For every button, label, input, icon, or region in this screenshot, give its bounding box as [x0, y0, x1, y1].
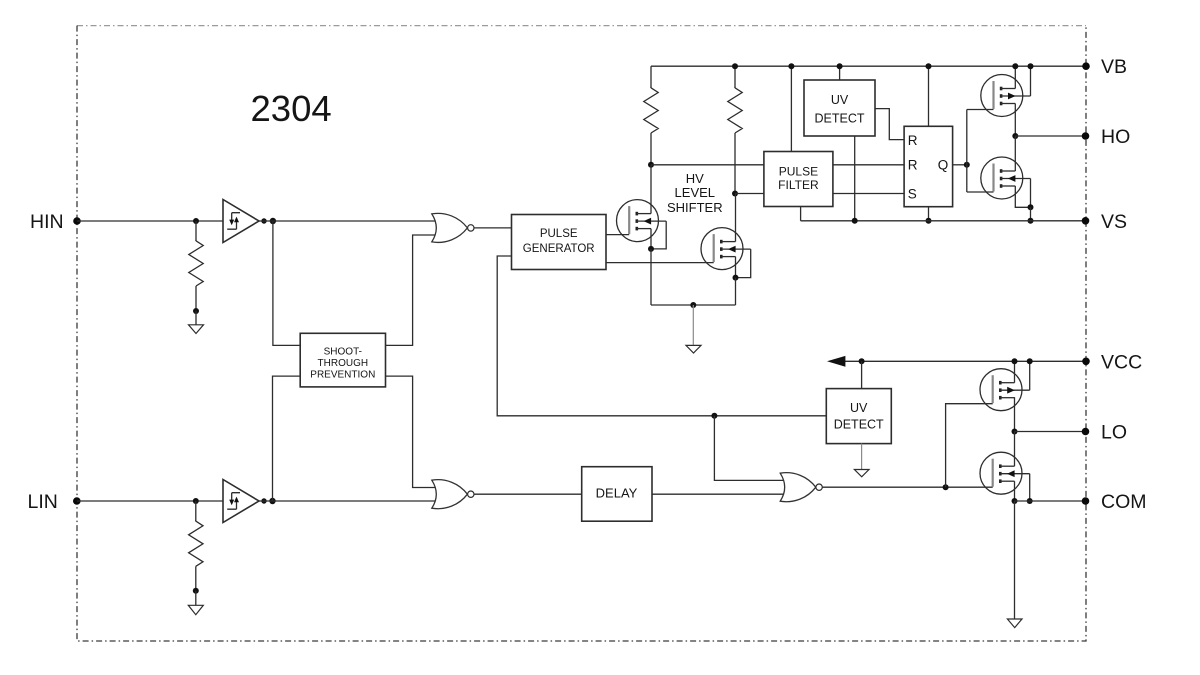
nor gate G1 (HIN)	[432, 213, 474, 242]
pin LO	[1082, 422, 1127, 444]
wire U1 output to gate G1	[259, 220, 438, 222]
label HV LEVEL SHIFTER	[667, 171, 723, 215]
wire R1 to ground	[195, 311, 197, 325]
wire Q1 drain up	[650, 165, 652, 214]
node VCC UV junction	[859, 358, 865, 364]
delay block	[582, 467, 652, 522]
resistor R3 (level shifter left)	[644, 66, 658, 165]
wire delay output to gate G3	[652, 493, 786, 495]
wire Q3 source to HO	[1014, 104, 1016, 137]
node output gate junction	[943, 484, 949, 490]
wire Q4 source loop	[1015, 186, 1030, 207]
wire Q2 source down	[735, 257, 737, 278]
arrow VCC feed	[827, 356, 845, 367]
wire G1 output to pulse generator	[474, 227, 512, 229]
svg-text:VCC: VCC	[1101, 351, 1142, 373]
node low-side route junction	[711, 413, 717, 419]
svg-text:PULSE: PULSE	[540, 228, 578, 240]
svg-text:HO: HO	[1101, 126, 1130, 148]
node LO junction	[1012, 429, 1018, 435]
wire Q node to Q3 gate	[967, 109, 994, 111]
wire HIN branch down to shoot-through	[273, 221, 300, 345]
ground level shifter	[686, 345, 701, 353]
node VB latch junction	[926, 63, 932, 69]
node R2 bottom	[193, 588, 199, 594]
node VB-R4 junction	[732, 63, 738, 69]
wire Q2 node to rail	[735, 278, 737, 305]
svg-text:SHOOT-: SHOOT-	[324, 346, 362, 357]
svg-text:Q: Q	[938, 158, 949, 173]
wire pulse filter S output to latch	[833, 193, 904, 195]
wire UV detect output to latch R1	[875, 109, 904, 140]
wire G3 output to output stage gates	[822, 486, 992, 488]
wire pulse filter bottom to VS rail	[800, 207, 802, 221]
shoot-through prevention block	[300, 333, 385, 387]
wire low route to gate G3 top input	[714, 416, 786, 481]
node VCC Q5 drain	[1012, 358, 1018, 364]
wire shoot-through top output to gate G1	[386, 235, 439, 345]
node COM Q6 source	[1012, 498, 1018, 504]
node VS Q4 junction	[1028, 218, 1034, 224]
wire G2 output to delay	[474, 493, 582, 495]
wire UV detect low to ground	[861, 444, 863, 470]
pin COM	[1082, 491, 1147, 513]
svg-text:COM: COM	[1101, 491, 1147, 513]
UV detect block (high side)	[804, 80, 875, 136]
VB rail	[651, 65, 1086, 67]
pin HO	[1082, 126, 1131, 148]
svg-text:SHIFTER: SHIFTER	[667, 200, 723, 215]
node COM Q6 body	[1027, 498, 1033, 504]
wire Q4 drain to HO	[1014, 136, 1016, 171]
transistor Q1 (level shifter left)	[617, 200, 667, 242]
svg-text:2304: 2304	[251, 88, 332, 129]
node R1 bottom	[193, 308, 199, 314]
node LIN junction	[193, 498, 199, 504]
node U1 output a	[261, 218, 266, 223]
wire VS rail	[801, 220, 1086, 222]
nor gate G2 (LIN)	[432, 480, 474, 509]
wire VB to pulse filter top	[790, 66, 792, 151]
svg-text:LO: LO	[1101, 422, 1127, 444]
wire level shifter common rail	[651, 304, 736, 306]
node Q2 source junction	[733, 275, 739, 281]
wire pulse generator to Q2 gate	[606, 262, 714, 264]
wire Q1 body loop	[651, 221, 666, 249]
wire pulse generator to Q1 gate	[606, 234, 629, 236]
wire VB to UV detect top	[839, 66, 841, 80]
resistor R1 HIN pulldown	[189, 221, 203, 311]
svg-text:LIN: LIN	[28, 491, 58, 513]
node R3 bottom	[648, 162, 654, 168]
node U1 output b	[270, 218, 276, 224]
wire Q4 body down	[1030, 179, 1032, 208]
pin VCC	[1082, 351, 1142, 373]
wire common rail to ground	[692, 305, 694, 345]
wire Q node to Q4 gate	[967, 191, 994, 193]
wire R2 to ground	[195, 591, 197, 606]
wire Q3 body to VB	[1030, 66, 1032, 96]
wire LIN input	[77, 500, 223, 502]
transistor Q4 (high side N)	[981, 157, 1031, 199]
node VB UV junction	[837, 63, 843, 69]
pulse generator block	[512, 215, 607, 270]
wire VB to latch top	[928, 66, 930, 126]
node common rail center	[690, 302, 696, 308]
svg-text:FILTER: FILTER	[778, 178, 819, 192]
ground LIN	[188, 605, 203, 614]
node VB Q3 drain	[1012, 63, 1018, 69]
transistor Q5 (low side P)	[980, 369, 1030, 411]
wire shoot-through bottom output to gate G2	[386, 376, 439, 487]
resistor R4 (level shifter right)	[728, 66, 742, 193]
svg-text:LEVEL: LEVEL	[675, 185, 715, 200]
schmitt buffer U1 HIN	[223, 200, 259, 243]
node HO junction	[1012, 133, 1018, 139]
pin VS	[1082, 211, 1127, 233]
svg-text:R: R	[908, 133, 918, 148]
nor gate G3 (low side)	[780, 473, 822, 502]
wire UV detect bottom to VS rail	[854, 136, 856, 221]
transistor Q3 (high side P)	[981, 75, 1031, 117]
IC boundary dashed border (left/bottom/right)	[77, 26, 1086, 641]
schmitt buffer U2 LIN	[223, 480, 259, 523]
node Q1 source junction	[648, 246, 654, 252]
ground COM	[1007, 619, 1022, 628]
wire HO line	[1015, 135, 1085, 137]
node U2 output b	[269, 498, 275, 504]
wire Q1 source down	[650, 229, 652, 249]
pin LIN	[28, 491, 81, 513]
resistor R2 LIN pulldown	[189, 501, 203, 591]
svg-text:THROUGH: THROUGH	[318, 358, 369, 369]
wire Q4 node to VS	[1030, 207, 1032, 221]
wire gate branch up to Q5	[946, 404, 993, 488]
node VCC Q5 body	[1027, 358, 1033, 364]
svg-text:DELAY: DELAY	[596, 486, 638, 501]
svg-text:HV: HV	[686, 171, 704, 186]
UV detect block (low side)	[826, 389, 891, 444]
ground HIN	[189, 325, 204, 334]
RS latch U3	[904, 126, 953, 206]
node Q4 source-body junction	[1028, 204, 1034, 210]
wire Q2 body loop	[736, 249, 751, 278]
wire LIN branch up to shoot-through	[273, 376, 301, 501]
node Q output junction	[964, 162, 970, 168]
wire pulse filter R output to latch	[833, 164, 904, 166]
IC boundary dashed border (top)	[77, 25, 1086, 27]
svg-text:UV: UV	[831, 93, 849, 107]
svg-text:VB: VB	[1101, 56, 1127, 78]
svg-text:VS: VS	[1101, 211, 1127, 233]
wire LO line	[1015, 431, 1086, 433]
wire latch Q output	[953, 164, 967, 166]
wire Q node vertical	[966, 110, 968, 193]
svg-text:PULSE: PULSE	[779, 165, 818, 179]
wire Q6 drain to LO	[1014, 432, 1016, 467]
wire U2 output to gate G2	[259, 500, 438, 502]
svg-text:DETECT: DETECT	[834, 417, 884, 431]
node latch VS junction	[926, 218, 932, 224]
svg-text:PREVENTION: PREVENTION	[310, 369, 375, 380]
transistor Q2 (level shifter right)	[701, 228, 751, 270]
ground UV detect low	[854, 470, 869, 477]
node HIN junction	[193, 218, 199, 224]
svg-text:GENERATOR: GENERATOR	[523, 243, 595, 255]
wire COM to ground	[1014, 501, 1016, 619]
svg-text:R: R	[908, 158, 918, 173]
wire R3 node to pulse filter R input	[651, 164, 764, 166]
pin VB	[1082, 56, 1127, 78]
svg-text:DETECT: DETECT	[815, 111, 865, 125]
wire Q5 source to LO	[1014, 397, 1016, 431]
wire R4 node to pulse filter S input	[735, 193, 764, 195]
wire latch bottom to VS rail	[928, 207, 930, 221]
pin HIN	[30, 211, 81, 233]
wire Q5 drain to VCC	[1014, 361, 1016, 382]
wire Q6 source to COM	[1014, 481, 1016, 501]
wire Q6 body to COM	[1029, 474, 1031, 501]
node R4 bottom	[732, 191, 738, 197]
wire Q1 node to rail	[650, 249, 652, 305]
pulse filter block	[764, 152, 833, 207]
wire VCC to UV detect low top	[861, 361, 863, 388]
svg-text:HIN: HIN	[30, 211, 64, 233]
node VS UV junction	[852, 218, 858, 224]
transistor Q6 (low side N)	[980, 452, 1030, 494]
wire COM rail	[1015, 500, 1086, 502]
wire HIN input	[77, 220, 223, 222]
wire pulse generator low-side route	[497, 256, 826, 416]
VCC rail	[843, 360, 1086, 362]
wire Q5 body to VCC	[1029, 361, 1031, 390]
wire Q2 drain up	[735, 194, 737, 242]
node VB pulse filter junction	[788, 63, 794, 69]
svg-text:S: S	[908, 186, 917, 201]
wire Q3 drain to VB	[1014, 66, 1016, 88]
node U2 output a	[261, 498, 266, 503]
node VB Q3 body	[1028, 63, 1034, 69]
svg-text:UV: UV	[850, 401, 868, 415]
